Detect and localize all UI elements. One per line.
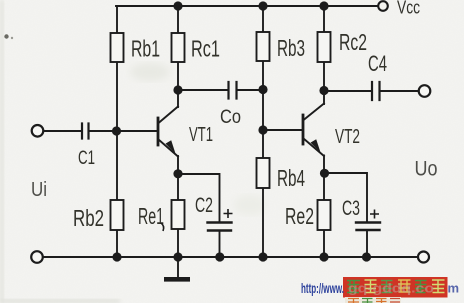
wire ground stub <box>177 257 179 277</box>
wire VT1 collector node to Co <box>178 89 228 91</box>
node Co to Rb3 junction <box>258 85 267 94</box>
svg-text:Uo: Uo <box>415 158 438 181</box>
svg-text:Rc1: Rc1 <box>191 36 220 62</box>
resistor Rb4 <box>257 158 270 188</box>
node VT1 emitter junction <box>173 169 182 178</box>
terminal input bottom <box>31 251 43 263</box>
svg-text:Rb2: Rb2 <box>73 205 104 231</box>
svg-text:Rb4: Rb4 <box>277 165 305 191</box>
node ground rail C2 junction <box>215 252 224 261</box>
terminal Vcc <box>378 1 388 11</box>
node VT2 collector junction <box>319 86 328 95</box>
node ground rail Rb4 junction <box>258 252 267 261</box>
label C3 polarity plus <box>370 210 379 219</box>
wire Rb1 bottom to VT1 base node and down to Rb2 <box>116 62 118 200</box>
svg-text:Rb1: Rb1 <box>131 36 160 62</box>
wire VT2 base node to base <box>263 129 302 131</box>
svg-text:VT2: VT2 <box>335 126 360 148</box>
label C2 polarity plus <box>224 209 233 218</box>
node ground rail Rb2 junction <box>112 252 121 261</box>
node ground rail C3 junction <box>362 252 371 261</box>
terminal input top <box>32 125 44 137</box>
resistor Rc2 <box>318 32 331 62</box>
wire C3 bottom to ground rail <box>366 231 368 258</box>
wire Rc2 to top rail <box>323 6 325 32</box>
wire VT2 collector node to C4 <box>324 90 372 92</box>
ground <box>164 277 190 282</box>
resistor Rc1 <box>172 33 185 62</box>
wire VT2 emitter node to C3 branch <box>324 173 367 222</box>
node VT1 base junction <box>112 126 121 135</box>
svg-text:Rc2: Rc2 <box>339 29 367 55</box>
wire VT1 emitter node to Re1 <box>177 174 179 200</box>
svg-text:C2: C2 <box>195 194 213 217</box>
transistor VT2 <box>303 91 324 173</box>
svg-text:gq-gddq.co: gq-gddq.co <box>348 281 434 296</box>
wire Rb4 bottom to ground rail <box>262 188 264 257</box>
svg-text:C4: C4 <box>368 51 387 76</box>
svg-text:Re1: Re1 <box>138 203 164 229</box>
node VT2 emitter junction <box>320 169 329 178</box>
node ground rail Re1 junction <box>173 252 182 261</box>
watermark red banner <box>343 277 448 298</box>
svg-text:VT1: VT1 <box>189 124 213 146</box>
terminal output top <box>419 85 431 97</box>
terminal output bottom <box>418 252 429 263</box>
node ground rail Re2 junction <box>319 252 328 261</box>
wire VT1 emitter node to C2 branch <box>178 174 220 222</box>
wire Rc2 bottom to VT2 collector node <box>323 62 325 90</box>
wire Rb1 to top rail <box>116 6 118 33</box>
resistor Rb1 <box>111 33 124 62</box>
wire Rc1 bottom to VT1 collector node <box>177 62 179 90</box>
svg-text:Re2: Re2 <box>285 203 314 229</box>
watermark glyph row 1 <box>347 280 445 294</box>
watermark glyph row 2 <box>348 299 400 304</box>
svg-text:C3: C3 <box>342 197 360 220</box>
capacitor C3 plates <box>356 223 380 231</box>
resistor Rb3 <box>257 32 270 61</box>
capacitor Co plates <box>229 82 237 99</box>
wire Rb2 bottom to ground rail <box>116 230 118 257</box>
node VT2 base junction <box>258 125 267 134</box>
svg-text:Ui: Ui <box>31 179 47 201</box>
svg-text:Co: Co <box>220 107 241 128</box>
wire Rb3 to top rail <box>262 6 264 32</box>
svg-text:m: m <box>448 281 460 296</box>
wire VT1 base node to base <box>116 130 157 132</box>
svg-text:Vcc: Vcc <box>397 0 420 18</box>
label Re1 tick mark <box>161 223 164 231</box>
node top rail Rb3 junction <box>258 1 267 10</box>
transistor VT1 <box>158 90 178 174</box>
resistor Rb2 <box>111 200 124 230</box>
resistor Re2 <box>318 200 331 230</box>
wire C1 to VT1 base node <box>89 130 116 132</box>
wire top supply rail <box>116 5 378 7</box>
capacitor C2 plates <box>208 223 232 231</box>
svg-text:C1: C1 <box>78 148 95 169</box>
capacitor C1 plates <box>82 124 89 139</box>
svg-text:http://www.: http://www. <box>301 281 344 296</box>
node VT1 collector junction <box>173 85 182 94</box>
node top rail Rc1 junction <box>173 1 182 10</box>
wire Re1 bottom to ground rail <box>177 229 179 257</box>
capacitor C4 plates <box>372 82 380 100</box>
node top rail Rc2 junction <box>319 1 328 10</box>
wire Re2 bottom to ground rail <box>323 230 325 257</box>
wire input terminal to C1 <box>42 130 82 132</box>
resistor Re1 <box>172 200 185 229</box>
wire bottom ground rail <box>42 256 418 258</box>
wire Rb3 bottom through Co node and VT2 base node to Rb4 <box>262 61 264 158</box>
wire VT2 emitter node to Re2 <box>323 174 325 200</box>
wire C2 bottom to ground rail <box>219 231 221 257</box>
wire Rc1 to top rail <box>177 6 179 33</box>
svg-text:Rb3: Rb3 <box>277 35 305 61</box>
wire C4 to output terminal <box>380 90 419 92</box>
wire Co to Rb3 column node <box>237 89 263 91</box>
